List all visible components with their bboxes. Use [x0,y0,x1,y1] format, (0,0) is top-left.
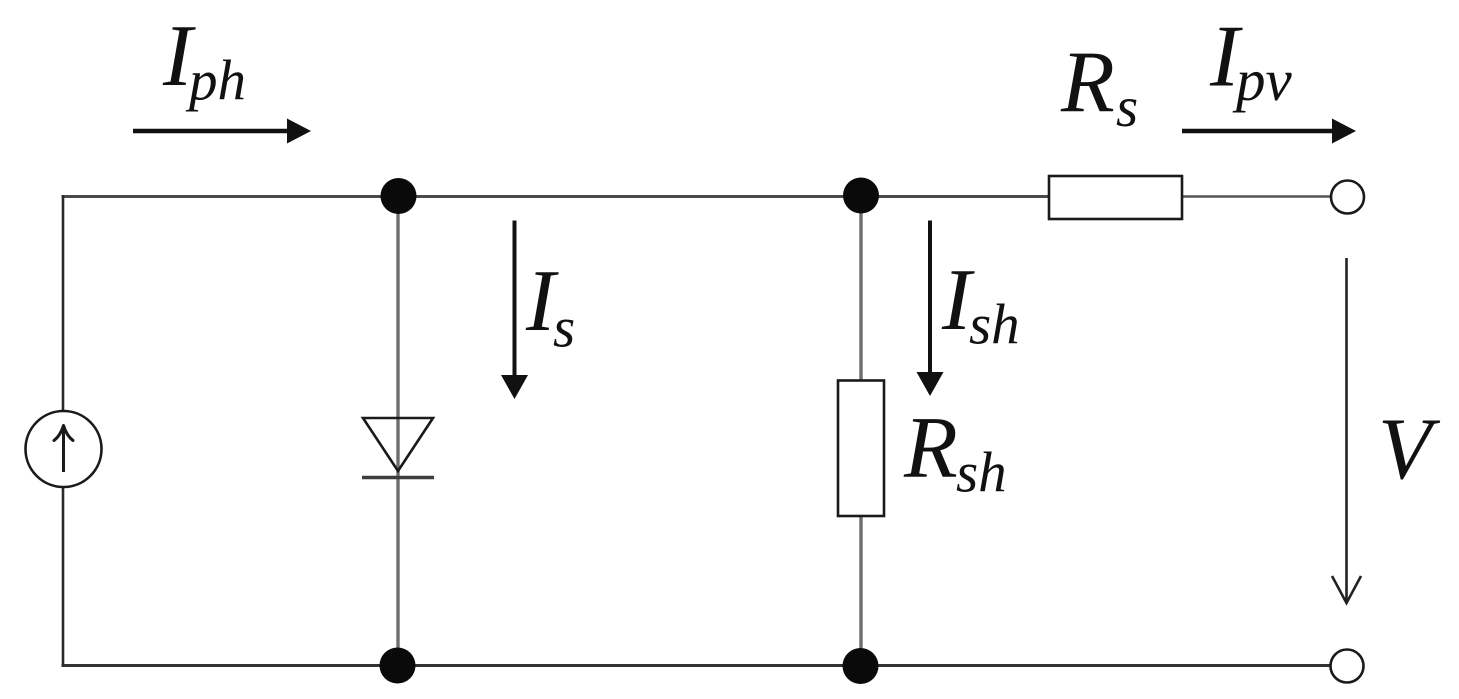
terminal negative (open circle) [1331,650,1364,683]
current arrow Ish [917,221,944,397]
svg-text:pv: pv [1232,47,1293,113]
terminal positive (open circle) [1331,181,1364,214]
current source Iph (circle with up arrow) [26,411,102,487]
node junction bottom-left [380,648,416,684]
current arrow Iph [133,119,311,144]
label Rs [1060,35,1138,140]
node junction top-left [381,178,417,214]
svg-text:R: R [1060,35,1115,132]
label Iph [162,8,246,113]
voltage arrow V [1332,258,1361,603]
current arrow Is [501,221,528,400]
wire diode branch [396,197,399,666]
node junction bottom-right [843,648,879,684]
svg-text:s: s [553,297,575,360]
label Ish [941,252,1020,357]
wire bottom bus [62,664,1331,667]
resistor Rsh (vertical box) [838,381,884,517]
diode D (anode top, cathode bottom) [362,418,434,478]
svg-text:ph: ph [185,50,246,113]
svg-text:R: R [903,400,958,497]
label Ipv [1209,9,1293,114]
label Is [525,253,575,360]
wire left branch [62,195,65,667]
current arrow Ipv [1182,119,1356,144]
svg-text:s: s [1116,76,1138,139]
wire from Rs to positive terminal [1182,195,1331,198]
resistor Rs (horizontal box) [1049,176,1182,219]
svg-text:V: V [1378,401,1441,498]
wire top bus from left corner to Rs [62,195,1050,198]
wire shunt branch [859,196,862,666]
node junction top-right [843,178,879,214]
label Rsh [903,400,1007,505]
svg-text:sh: sh [956,442,1007,505]
svg-text:sh: sh [969,294,1020,357]
